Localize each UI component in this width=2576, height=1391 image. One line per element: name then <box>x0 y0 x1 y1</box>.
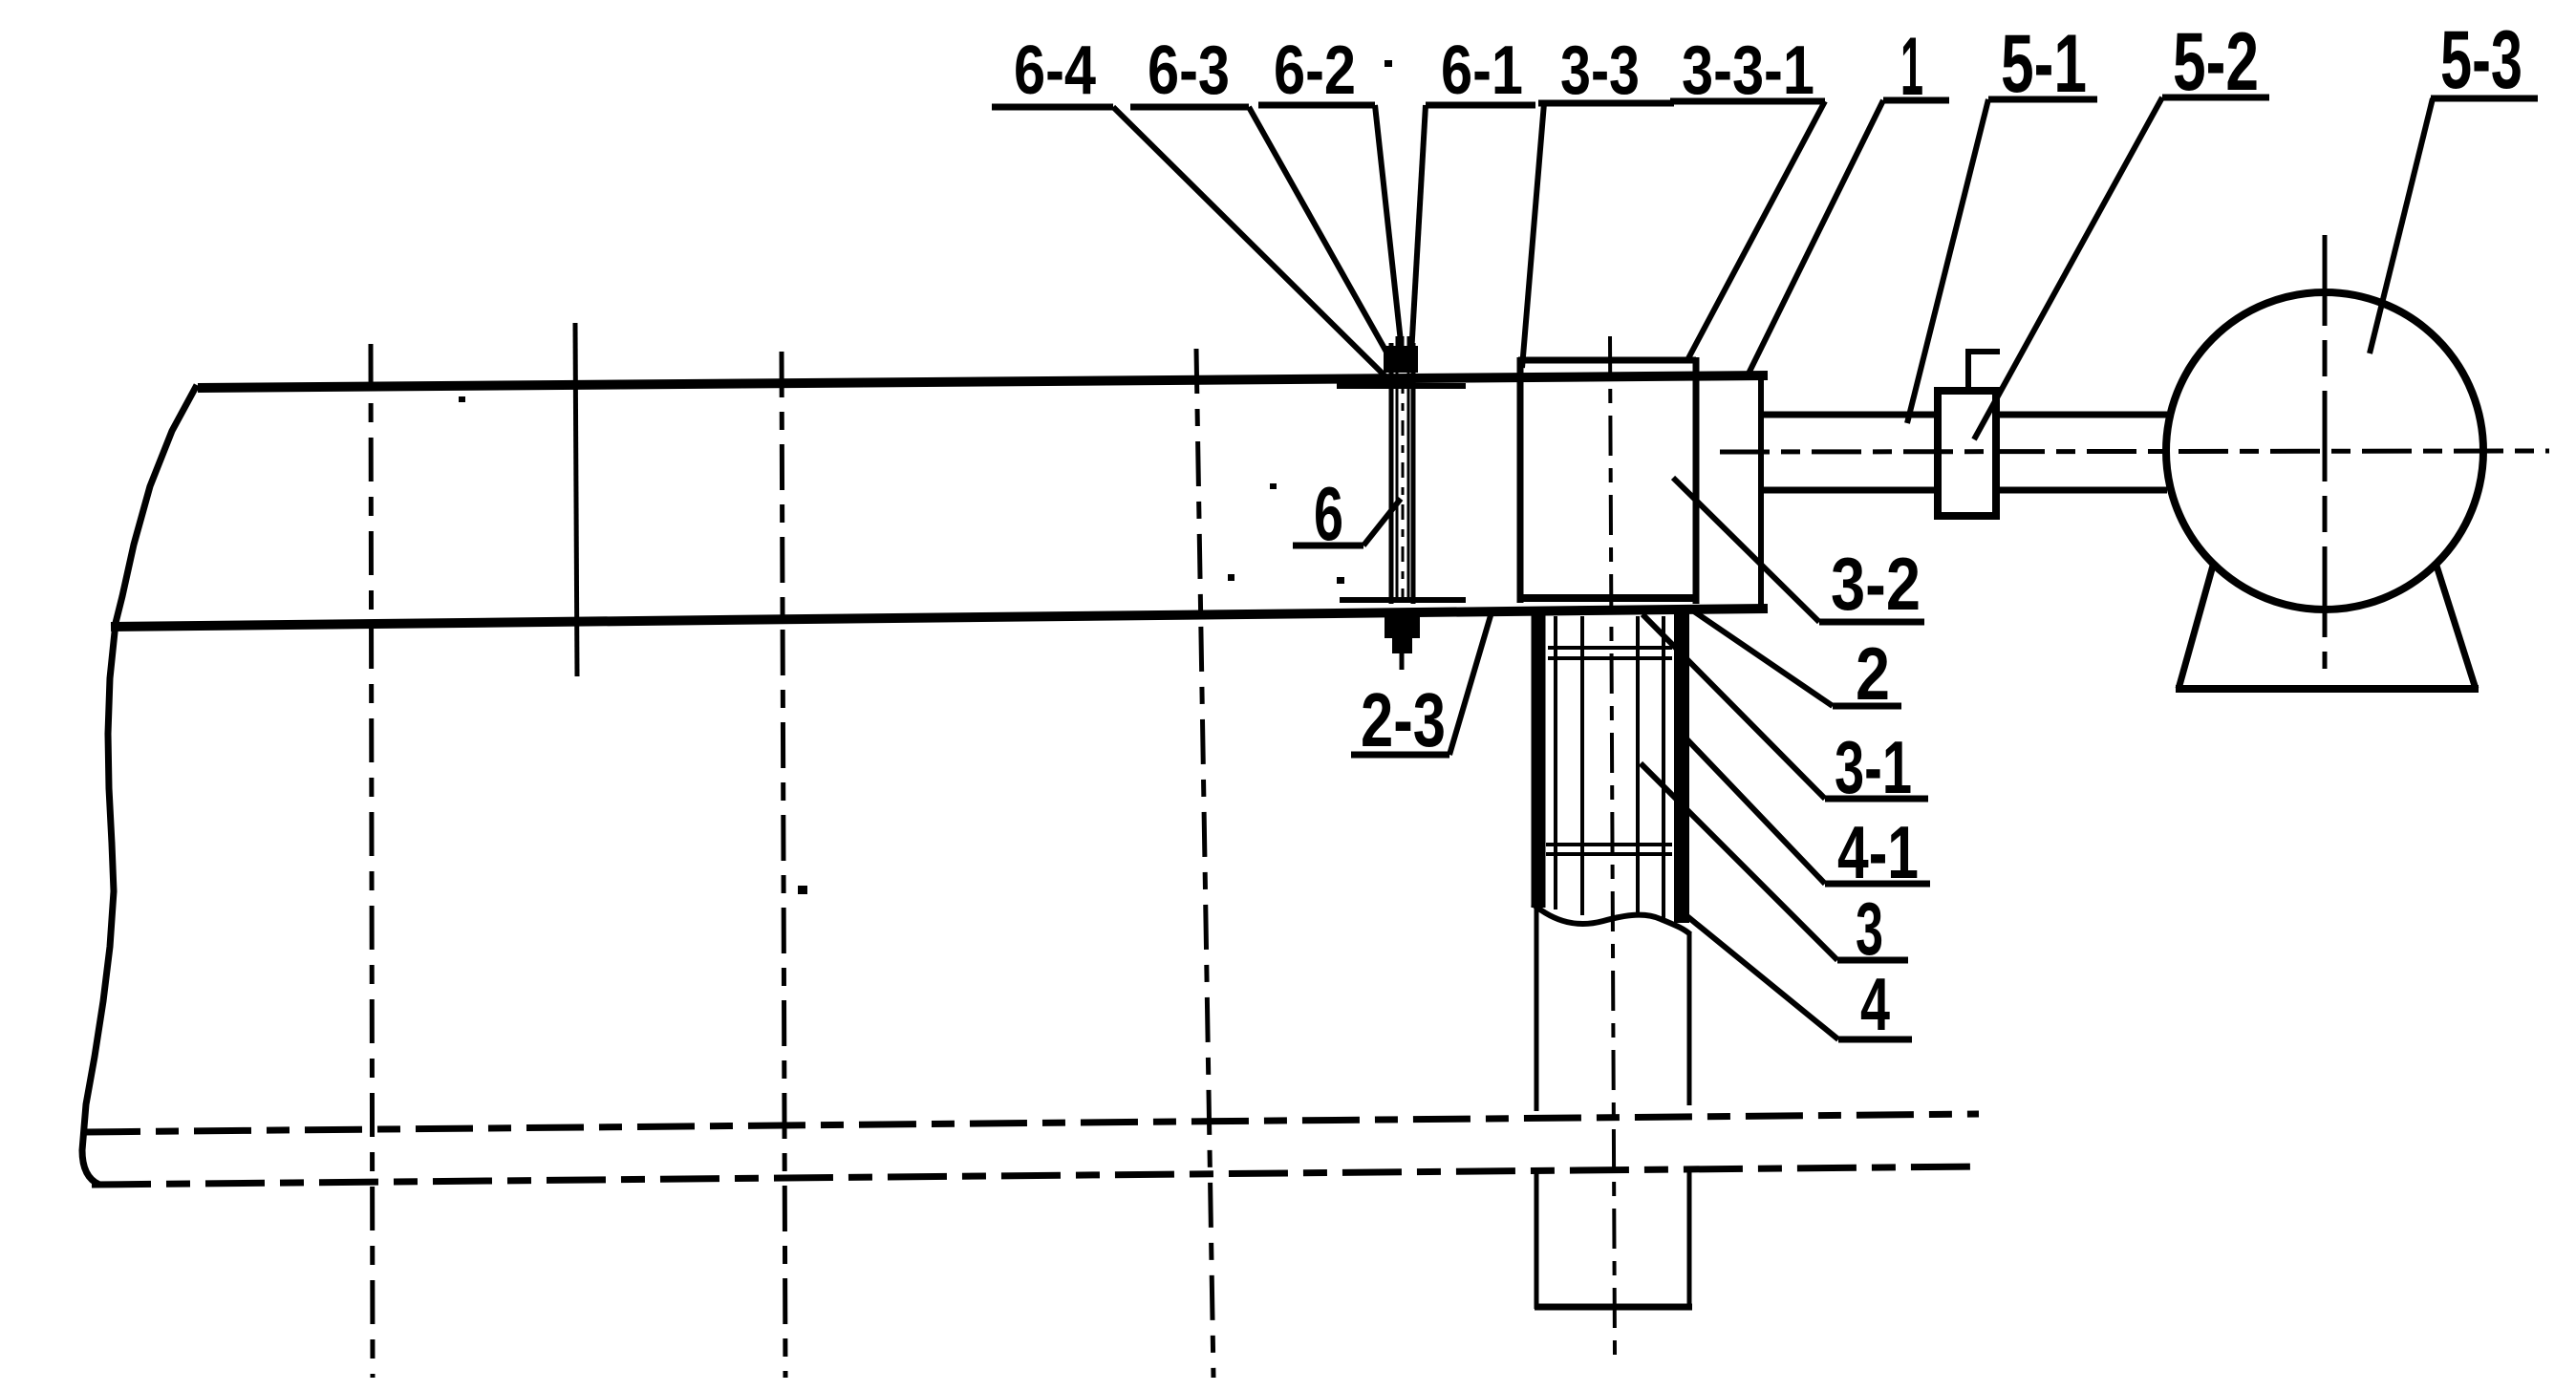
motor stand base line <box>2176 685 2479 693</box>
label 3-1 leader <box>1642 614 1825 799</box>
kiln left broken-end arc <box>82 385 197 1185</box>
probe 6 bottom gland blob <box>1385 612 1420 638</box>
inner sleeve line d <box>1662 616 1665 920</box>
coupling key flag horizontal <box>1965 349 2000 354</box>
gearbox 3-2 bottom line <box>1517 594 1699 602</box>
svg-text:6-1: 6-1 <box>1441 32 1523 109</box>
lower pipe left wall lower segment <box>1535 1170 1539 1309</box>
label 5-2 underline <box>2162 95 2269 101</box>
label 6 leader <box>1363 499 1401 546</box>
motor stand right side <box>2436 566 2476 689</box>
probe 6 top flange plate <box>1337 383 1466 389</box>
probe 6 bottom tip block <box>1392 638 1412 653</box>
speck near label 6 <box>1337 577 1344 584</box>
label 6-1 leader <box>1411 105 1426 354</box>
shaft centerline (dash-dot) <box>1720 451 2549 452</box>
svg-text:2-3: 2-3 <box>1361 677 1446 762</box>
gearbox 3-2 left edge <box>1517 357 1524 603</box>
lower rail dashed line lower <box>92 1166 1979 1185</box>
probe 6 tube center dashed <box>1402 336 1405 602</box>
label 6-2 underline <box>1258 102 1375 109</box>
label 1 underline <box>1883 97 1949 104</box>
discharge pipe upper right wall (thick) <box>1674 610 1689 923</box>
pipe break wavy line <box>1533 904 1690 934</box>
probe 6 tube inner right line <box>1407 336 1410 602</box>
label 3-1 underline <box>1825 796 1928 802</box>
svg-text:4-1: 4-1 <box>1837 810 1919 894</box>
lower pipe right wall upper segment <box>1687 932 1692 1105</box>
label 3-3-1 underline <box>1670 98 1825 105</box>
motor shaft top line right part <box>1997 412 2167 418</box>
svg-text:3-3-1: 3-3-1 <box>1682 32 1814 109</box>
lower pipe left wall upper segment <box>1535 908 1539 1111</box>
probe 6 bottom flange plate <box>1340 597 1466 603</box>
label 6-4 underline <box>992 104 1113 111</box>
probe 6 tube left line <box>1389 343 1394 604</box>
speck mid field <box>1228 574 1234 581</box>
label 3-3 leader <box>1522 103 1544 368</box>
coupling 5-2 body <box>1938 391 1996 516</box>
inner sleeve line a <box>1554 616 1557 909</box>
svg-text:3-3: 3-3 <box>1560 32 1640 109</box>
motor shaft bottom line left part <box>1764 487 1938 494</box>
label 6-3 underline <box>1130 104 1249 111</box>
kiln shell bottom edge <box>111 609 1768 627</box>
label 2-3 underline <box>1351 752 1449 759</box>
label 2 underline <box>1833 703 1901 710</box>
motor stand left side <box>2179 566 2213 689</box>
sleeve lower rib line 2 <box>1546 852 1672 856</box>
label 5-3 leader <box>2370 98 2433 353</box>
label 1 leader <box>1748 100 1883 375</box>
svg-text:4: 4 <box>1860 962 1890 1046</box>
svg-text:6-3: 6-3 <box>1148 32 1230 109</box>
label 6-3 leader <box>1249 107 1392 362</box>
label 4-1 leader <box>1681 733 1825 884</box>
section line B (solid vertical) <box>575 323 577 676</box>
svg-text:5-3: 5-3 <box>2440 14 2522 106</box>
motor shaft top line left part <box>1764 412 1938 418</box>
lower pipe right wall lower segment <box>1687 1166 1692 1309</box>
svg-text:2: 2 <box>1856 631 1890 716</box>
svg-text:5-2: 5-2 <box>2173 16 2259 108</box>
label 3-2 leader <box>1673 478 1819 622</box>
sleeve top rib line 1 <box>1548 646 1672 650</box>
section line E (dashed vertical) <box>1196 349 1213 1378</box>
section line C (dashed vertical) <box>782 352 785 1378</box>
label 2 leader <box>1691 610 1833 706</box>
svg-text:5-1: 5-1 <box>2001 18 2087 110</box>
probe 6 top gland blob <box>1384 346 1418 373</box>
label 3-3-1 leader <box>1687 101 1825 360</box>
probe 6 tube inner left line <box>1396 336 1399 602</box>
label 6-1 underline <box>1426 102 1535 109</box>
label 5-3 underline <box>2431 96 2538 102</box>
bearing housing right edge <box>1758 378 1764 611</box>
svg-text:6-2: 6-2 <box>1274 32 1356 109</box>
speck near 6-2 <box>1385 60 1392 67</box>
svg-text:6-4: 6-4 <box>1014 32 1096 109</box>
label 3-3 underline <box>1538 100 1674 107</box>
coupling key flag vertical <box>1965 350 1971 391</box>
sleeve top rib line 2 <box>1548 656 1672 660</box>
label 2-3 leader <box>1449 612 1492 755</box>
label 3 leader <box>1641 763 1837 960</box>
label 6-4 leader <box>1113 107 1385 376</box>
label 4 leader <box>1684 913 1838 1039</box>
label 6-2 leader <box>1375 105 1402 351</box>
label 4 underline <box>1838 1037 1912 1043</box>
svg-text:6: 6 <box>1314 471 1343 556</box>
speck left of probe <box>1270 483 1277 489</box>
lower rail dashed line upper <box>83 1114 1979 1132</box>
kiln shell top edge <box>198 375 1768 388</box>
label 5-1 underline <box>1988 96 2097 103</box>
speck lower field <box>798 886 807 894</box>
svg-text:3-2: 3-2 <box>1831 542 1921 626</box>
label 6 underline <box>1293 543 1363 549</box>
probe 6 needle <box>1400 653 1405 670</box>
label 3-2 underline <box>1819 619 1924 626</box>
svg-text:1: 1 <box>1900 21 1923 113</box>
label 3 underline <box>1837 957 1908 964</box>
svg-text:3-1: 3-1 <box>1835 725 1912 809</box>
gearbox 3-2 right edge <box>1693 357 1700 604</box>
svg-text:3: 3 <box>1856 887 1883 971</box>
motor shaft bottom line right part <box>1997 487 2167 494</box>
label 5-2 leader <box>1974 97 2162 439</box>
probe 6 tube right line <box>1411 343 1416 604</box>
vertical pipe centerline <box>1610 336 1615 1356</box>
motor 5-3 body circle <box>2166 292 2483 610</box>
inner sleeve line b <box>1580 616 1584 915</box>
speck below top edge left <box>459 396 465 402</box>
section line A (dashed vertical) <box>371 344 373 1378</box>
inner sleeve line c <box>1636 616 1640 917</box>
motor vertical centerline <box>2323 235 2328 669</box>
sleeve lower rib line 1 <box>1546 843 1672 846</box>
label 5-1 leader <box>1907 99 1988 423</box>
label 4-1 underline <box>1825 881 1930 888</box>
lower pipe bottom line <box>1535 1304 1692 1311</box>
cover plate 3-3 top line <box>1518 357 1696 364</box>
discharge pipe upper left wall (thick) <box>1532 612 1546 908</box>
